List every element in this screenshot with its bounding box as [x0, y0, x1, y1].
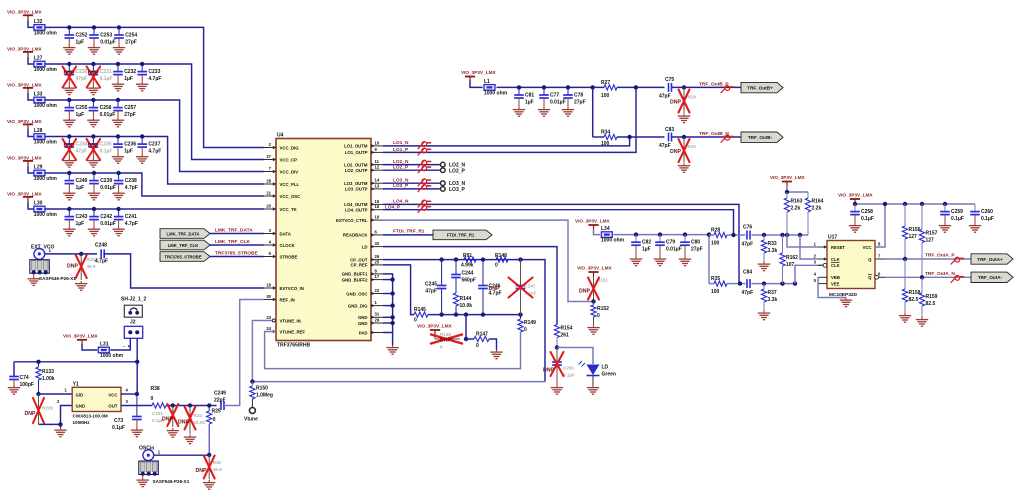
DNP mark C250: [543, 352, 564, 376]
svg-text:1.00k: 1.00k: [42, 376, 55, 382]
svg-text:0.01µF: 0.01µF: [100, 40, 116, 46]
ground under R37: [758, 311, 770, 320]
connector J2: [123, 319, 143, 348]
wire Y1 GND to ground: [39, 399, 73, 428]
svg-text:C73: C73: [114, 418, 123, 424]
wire LO3_P: [383, 188, 440, 190]
inductor L1: [484, 79, 508, 97]
svg-text:C75: C75: [665, 77, 674, 83]
svg-text:LO1_N: LO1_N: [393, 140, 409, 146]
svg-text:C78: C78: [574, 93, 583, 99]
svg-text:VCC_PLL: VCC_PLL: [280, 182, 300, 187]
svg-text:R226: R226: [42, 406, 53, 411]
wire R38 to C249: [166, 403, 217, 407]
diff pair symbol LO1: [418, 141, 432, 155]
wire LO1_P: [383, 87, 636, 152]
wire EXT_VCO to C248: [45, 252, 97, 256]
svg-text:DNP: DNP: [670, 149, 681, 155]
svg-text:DNP: DNP: [196, 468, 207, 474]
capacitor C246: [478, 260, 501, 315]
diff pair symbol LO2: [418, 160, 432, 173]
svg-text:DNP: DNP: [162, 416, 173, 422]
node LO4 labels: [385, 199, 409, 211]
svg-text:127: 127: [926, 237, 935, 243]
wire R163/R164 top: [785, 186, 808, 195]
wire CLK net: [800, 235, 818, 259]
svg-text:L30: L30: [34, 200, 43, 206]
wire LO2_P: [383, 169, 440, 171]
wire U4 GND pins: [383, 274, 395, 345]
svg-text:U17: U17: [828, 235, 837, 241]
svg-text:LO3_OUTM: LO3_OUTM: [344, 181, 368, 186]
svg-text:LMK_TRF_CLK: LMK_TRF_CLK: [168, 243, 198, 248]
svg-text:LO2_OUTM: LO2_OUTM: [344, 162, 368, 167]
connector EXT_VCO SASF546-P26-X1: [28, 244, 77, 285]
svg-text:0: 0: [597, 313, 600, 319]
svg-text:32: 32: [375, 241, 380, 246]
power flag VIO_3P3V_LMX (R146): [417, 324, 453, 336]
svg-text:EXTVCO_IN: EXTVCO_IN: [280, 286, 304, 291]
capacitor C253: [88, 25, 116, 54]
wire to LED: [557, 348, 593, 363]
resistor R37: [761, 284, 777, 311]
svg-text:VIO_3P3V_LMX: VIO_3P3V_LMX: [7, 82, 43, 87]
power flag VIO_3P3V_LMX (L30 row): [7, 191, 43, 202]
resistor R30 OSCin (DNP): [196, 455, 223, 480]
wire VBB/VEE to ground: [818, 277, 846, 297]
svg-text:47pF: 47pF: [742, 242, 754, 248]
resistor R34: [601, 130, 617, 147]
svg-text:VIO_3P3V_LMX: VIO_3P3V_LMX: [577, 266, 613, 271]
svg-text:C259: C259: [951, 209, 963, 215]
resistor R28: [709, 227, 734, 246]
wire oscillator supply bus: [14, 360, 137, 364]
capacitor C233: [136, 62, 161, 91]
DNP mark C230: [63, 67, 77, 88]
resistor R226 (DNP): [25, 394, 54, 424]
svg-text:100: 100: [601, 141, 610, 147]
wire C75 to tag: [672, 85, 742, 89]
wire VIO to L29: [28, 166, 34, 173]
capacitor C256: [87, 98, 115, 127]
svg-text:0: 0: [495, 263, 498, 269]
svg-text:GND_BUFF2: GND_BUFF2: [342, 277, 368, 282]
svg-text:PAD: PAD: [359, 330, 368, 335]
ground under R24: [184, 435, 196, 444]
capacitor C250 (DNP): [552, 348, 575, 386]
resistor R30 (DNP): [670, 137, 696, 163]
svg-text:R38: R38: [151, 386, 160, 392]
svg-text:LO1_OUTP: LO1_OUTP: [345, 150, 368, 155]
svg-text:C252: C252: [76, 33, 88, 39]
ground under Y1: [54, 428, 66, 437]
resistor R33: [761, 235, 777, 262]
svg-text:C253: C253: [100, 33, 112, 39]
svg-text:R27: R27: [601, 80, 610, 86]
svg-text:1µF: 1µF: [124, 76, 133, 82]
svg-text:13: 13: [375, 183, 380, 188]
wire L29 bus: [45, 173, 264, 196]
svg-text:L32: L32: [34, 19, 43, 25]
wire R149 to VTUNE_REF: [265, 332, 521, 369]
svg-text:R30: R30: [688, 144, 697, 149]
svg-text:0.1µF: 0.1µF: [563, 372, 575, 377]
svg-text:L31: L31: [100, 341, 109, 347]
svg-text:3.3k: 3.3k: [768, 297, 778, 303]
svg-text:DNP: DNP: [67, 263, 78, 269]
diff pair symbol OutA_N: [951, 275, 965, 283]
svg-text:1000 ohm: 1000 ohm: [34, 139, 58, 145]
svg-text:CLOCK: CLOCK: [280, 243, 296, 248]
power flag VIO_3P3V_LMX (L27 row): [7, 46, 43, 57]
svg-text:DNP: DNP: [64, 143, 75, 149]
svg-text:TRF_OutB-: TRF_OutB-: [748, 135, 773, 140]
svg-text:VTUNE_REF: VTUNE_REF: [280, 329, 306, 334]
svg-text:15: 15: [375, 199, 380, 204]
capacitor C257: [112, 98, 137, 127]
svg-text:1µF: 1µF: [124, 149, 133, 155]
svg-text:R29: R29: [688, 95, 697, 100]
svg-text:DNP: DNP: [178, 419, 189, 425]
resistor R148: [495, 253, 508, 269]
svg-text:L34: L34: [601, 226, 610, 232]
svg-text:STROBE: STROBE: [280, 254, 298, 259]
svg-text:R146: R146: [440, 332, 451, 337]
svg-text:LO3_P: LO3_P: [449, 187, 466, 193]
svg-text:VTUNE_IN: VTUNE_IN: [280, 318, 301, 323]
capacitor C79: [654, 232, 682, 265]
svg-text:C244: C244: [462, 270, 474, 276]
svg-text:LO4_N: LO4_N: [393, 199, 409, 205]
inductor L29: [34, 164, 58, 182]
capacitor C251 (DNP): [152, 404, 178, 427]
wire VIO to L30: [28, 202, 34, 209]
svg-text:DNP: DNP: [88, 143, 99, 149]
svg-text:LO4_P: LO4_P: [385, 205, 401, 211]
svg-text:49.9: 49.9: [213, 467, 222, 472]
wire TRF3765_STROBE: [210, 250, 264, 256]
test point LO2_N: [441, 162, 466, 168]
svg-text:10.0k: 10.0k: [194, 420, 206, 425]
inductor L27: [34, 55, 58, 73]
svg-text:R37: R37: [768, 290, 777, 296]
svg-text:R159: R159: [926, 294, 938, 300]
wire LO1_N: [383, 137, 630, 146]
node LED junction: [555, 345, 559, 349]
svg-text:0.1µF: 0.1µF: [100, 149, 113, 155]
svg-text:C231: C231: [100, 69, 112, 75]
ground under R153: [75, 281, 87, 290]
svg-text:RESET: RESET: [831, 245, 845, 250]
svg-text:L28: L28: [34, 128, 43, 134]
wire bus riser to Y1 VCC: [135, 362, 139, 396]
svg-text:27pF: 27pF: [691, 247, 703, 253]
svg-text:LO2_OUTP: LO2_OUTP: [345, 168, 368, 173]
svg-text:VIO_3P3V_LMX: VIO_3P3V_LMX: [770, 175, 806, 180]
resistor R147: [474, 331, 497, 349]
svg-text:26: 26: [375, 254, 380, 259]
capacitor C254: [113, 25, 138, 54]
capacitor C258: [849, 204, 874, 232]
power flag VIO_3P3V_LMX (L29 row): [7, 155, 43, 166]
op-amp U4 TRF3765IRHB body: [276, 133, 371, 349]
capacitor C81: [513, 85, 535, 116]
svg-text:100: 100: [711, 289, 720, 295]
svg-text:C82: C82: [642, 240, 651, 246]
wire VIO to L33: [28, 93, 34, 100]
svg-text:LO3_OUTP: LO3_OUTP: [345, 187, 368, 192]
svg-text:261: 261: [561, 333, 570, 339]
inductor L31: [98, 341, 123, 359]
ground under R158: [899, 313, 911, 322]
svg-text:R148: R148: [495, 253, 507, 259]
wire Y1 VCC: [121, 387, 137, 394]
port tag TRF_OutB-: [741, 132, 783, 142]
svg-text:29: 29: [375, 317, 380, 322]
port tag TRF3765_STROBE: [160, 252, 210, 262]
svg-text:1µF: 1µF: [76, 221, 85, 227]
svg-text:C258: C258: [861, 209, 873, 215]
svg-text:0.01µF: 0.01µF: [550, 100, 566, 106]
svg-text:TRF_OutA_P: TRF_OutA_P: [925, 253, 955, 259]
ground under U4: [386, 345, 398, 354]
node R152 junction: [591, 299, 595, 303]
resistor R133: [36, 362, 55, 394]
svg-text:82.5: 82.5: [926, 301, 936, 307]
svg-text:TRF_OutB+: TRF_OutB+: [747, 85, 773, 90]
svg-text:4.7pF: 4.7pF: [125, 185, 138, 191]
jumper SH-J2_1_2: [121, 297, 147, 318]
resistor R152: [591, 302, 609, 326]
svg-text:G/D: G/D: [76, 392, 84, 397]
test point LO2_P: [441, 168, 466, 175]
ground under R30 OSCin: [203, 480, 215, 489]
DNP mark C247: [489, 278, 533, 298]
svg-text:C243: C243: [76, 214, 88, 220]
svg-text:GND_DIG: GND_DIG: [348, 303, 368, 308]
capacitor C245: [425, 260, 446, 315]
svg-text:READBACK: READBACK: [343, 233, 368, 238]
svg-text:GND: GND: [358, 321, 368, 326]
capacitor C236: [112, 134, 137, 163]
wire Y1 OUT: [121, 399, 152, 406]
svg-text:0.01µF: 0.01µF: [100, 185, 116, 191]
svg-text:LO1_OUTM: LO1_OUTM: [344, 144, 368, 149]
svg-text:0.1µF: 0.1µF: [861, 216, 874, 222]
capacitor C230: [63, 62, 88, 95]
svg-text:1000 ohm: 1000 ohm: [34, 67, 58, 73]
LED LD: [579, 361, 616, 385]
svg-text:L29: L29: [34, 164, 43, 170]
svg-text:R164: R164: [812, 199, 824, 205]
wire VIO to L27: [28, 57, 34, 64]
wire C76 row: [731, 233, 808, 237]
svg-text:VCC_CP: VCC_CP: [280, 157, 298, 162]
wire OSCin to R25: [154, 453, 212, 457]
svg-text:R158: R158: [909, 290, 921, 296]
resistor R162: [780, 235, 798, 284]
svg-text:100MHz: 100MHz: [73, 420, 91, 425]
svg-text:C236: C236: [124, 142, 136, 148]
svg-text:C239: C239: [100, 178, 112, 184]
svg-text:C74: C74: [20, 375, 29, 381]
wire LO2_N: [383, 164, 440, 166]
resistor R164: [805, 192, 823, 235]
svg-text:C255: C255: [76, 105, 88, 111]
node LO2 labels: [393, 159, 409, 171]
ground under C251: [167, 428, 179, 437]
svg-text:31: 31: [375, 312, 380, 317]
ground under U17: [840, 298, 852, 307]
diff pair symbol OutA_P: [951, 257, 965, 265]
svg-text:VCC: VCC: [108, 392, 117, 397]
svg-text:SASF546-P26-X1: SASF546-P26-X1: [39, 276, 76, 281]
resistor R35: [709, 276, 740, 295]
svg-text:1µF: 1µF: [76, 112, 85, 118]
resistor R159: [919, 277, 937, 317]
inductor L34: [601, 226, 625, 244]
svg-text:4.7pF: 4.7pF: [125, 221, 138, 227]
svg-text:19: 19: [375, 215, 380, 220]
wire L31 to J2 pin1: [110, 338, 130, 350]
svg-text:4.7µF: 4.7µF: [148, 76, 161, 82]
svg-text:LO4_OUTM: LO4_OUTM: [344, 202, 368, 207]
svg-text:C242: C242: [100, 214, 112, 220]
svg-text:J2: J2: [130, 319, 136, 325]
svg-text:CLK: CLK: [831, 263, 840, 268]
wire L33 bus: [45, 100, 264, 172]
svg-text:47pF: 47pF: [76, 149, 88, 155]
ground under R152: [587, 325, 599, 334]
svg-text:11: 11: [375, 159, 380, 164]
capacitor C82: [630, 232, 652, 265]
capacitor C252: [63, 25, 88, 54]
svg-text:TRF3765IRHB: TRF3765IRHB: [277, 343, 310, 349]
capacitor C244: [451, 260, 476, 293]
svg-text:C248: C248: [95, 242, 107, 248]
svg-text:C79: C79: [666, 240, 675, 246]
svg-text:47pF: 47pF: [659, 143, 671, 149]
svg-text:LO3_N: LO3_N: [393, 178, 409, 184]
ground under R29: [678, 114, 690, 123]
capacitor C77: [538, 85, 566, 116]
svg-text:LO4_OUTP: LO4_OUTP: [345, 208, 368, 213]
svg-text:2.2k: 2.2k: [812, 206, 822, 212]
svg-text:82.5: 82.5: [909, 297, 919, 303]
wire RESET net: [787, 235, 818, 247]
svg-text:23: 23: [266, 315, 271, 320]
svg-text:EXTVCO_CTRL: EXTVCO_CTRL: [336, 218, 368, 223]
svg-text:C241: C241: [125, 214, 137, 220]
svg-text:R149: R149: [524, 320, 536, 326]
svg-text:VIO_3P3V_LMX: VIO_3P3V_LMX: [838, 193, 874, 198]
wire VIO to L31: [82, 344, 97, 350]
power flag VIO_3P3V_LMX (R151): [577, 266, 613, 278]
svg-text:1µF: 1µF: [642, 247, 651, 253]
svg-text:OUT: OUT: [108, 404, 117, 409]
svg-text:R157: R157: [926, 230, 938, 236]
wire L30 bus: [45, 208, 264, 210]
svg-text:0.01µF: 0.01µF: [100, 112, 116, 118]
svg-text:0: 0: [524, 327, 527, 333]
svg-text:1000 ohm: 1000 ohm: [601, 238, 625, 244]
resistor R146 (DNP): [431, 332, 462, 350]
svg-text:L1: L1: [484, 79, 490, 85]
diff pair symbol LO3: [418, 179, 432, 192]
wire EXTVCO_CTRL: [383, 220, 593, 301]
wire CLKbar net: [795, 265, 823, 283]
node R133/Y1 junction: [36, 392, 40, 396]
svg-text:R162: R162: [786, 255, 798, 261]
wire LO3_N: [383, 182, 440, 184]
svg-text:C237: C237: [148, 142, 160, 148]
svg-text:R147: R147: [476, 331, 488, 337]
svg-text:DNP: DNP: [25, 411, 36, 417]
test point LO3_P: [441, 187, 466, 194]
svg-text:VCC_TK: VCC_TK: [280, 207, 298, 212]
svg-text:TRF3765_STROBE: TRF3765_STROBE: [164, 254, 201, 259]
svg-text:C240: C240: [76, 178, 88, 184]
ground under R30: [678, 163, 690, 172]
svg-text:LMK_TRF_DATA: LMK_TRF_DATA: [167, 231, 200, 236]
svg-text:VCC_DIV: VCC_DIV: [280, 169, 299, 174]
svg-text:47pF: 47pF: [742, 290, 754, 296]
capacitor C248: [95, 242, 108, 264]
capacitor C242: [88, 207, 116, 236]
svg-text:28: 28: [266, 178, 271, 183]
svg-text:R25: R25: [212, 409, 221, 415]
svg-text:VIO_3P3V_LMX: VIO_3P3V_LMX: [7, 46, 43, 51]
capacitor C74: [9, 362, 34, 388]
svg-text:R28: R28: [711, 227, 720, 233]
svg-text:24: 24: [266, 326, 271, 331]
svg-text:22: 22: [375, 288, 380, 293]
svg-text:1000 ohm: 1000 ohm: [100, 353, 124, 359]
svg-text:R144: R144: [460, 296, 472, 302]
svg-text:30: 30: [266, 294, 271, 299]
svg-text:C250: C250: [563, 365, 574, 370]
svg-text:47pF: 47pF: [659, 94, 671, 100]
wire bottom row: [428, 312, 523, 316]
wire LMK_TRF_DATA: [210, 227, 264, 233]
inductor L32: [34, 19, 58, 37]
capacitor C83: [659, 127, 674, 149]
svg-text:0.01µF: 0.01µF: [666, 247, 682, 253]
wire VIO to L1: [470, 81, 483, 88]
resistor R29 (DNP): [670, 87, 696, 113]
node TRF_OutA_N label: [925, 271, 955, 277]
U17 pins: [814, 241, 885, 286]
wire CP_REF to R145: [383, 265, 414, 315]
wire L28 bus: [45, 137, 264, 185]
wire R133 to Y1 G/D: [39, 387, 73, 394]
svg-text:DNP: DNP: [64, 71, 75, 77]
inductor L33: [34, 91, 58, 109]
svg-text:0: 0: [476, 343, 479, 349]
capacitor C232: [112, 62, 137, 91]
svg-text:47pF: 47pF: [425, 288, 437, 294]
wire LD net: [383, 247, 557, 325]
port tag LMK_TRF_CLK: [160, 240, 210, 250]
wire READBACK: [383, 229, 433, 235]
svg-text:14: 14: [375, 178, 380, 183]
svg-text:2.2k: 2.2k: [791, 206, 801, 212]
svg-text:DNP: DNP: [440, 338, 451, 344]
resistor R91: [461, 253, 476, 269]
svg-text:GND_BUFF1: GND_BUFF1: [342, 272, 368, 277]
resistor R151 (DNP): [579, 276, 608, 302]
wire LO1P junction riser: [592, 87, 594, 137]
